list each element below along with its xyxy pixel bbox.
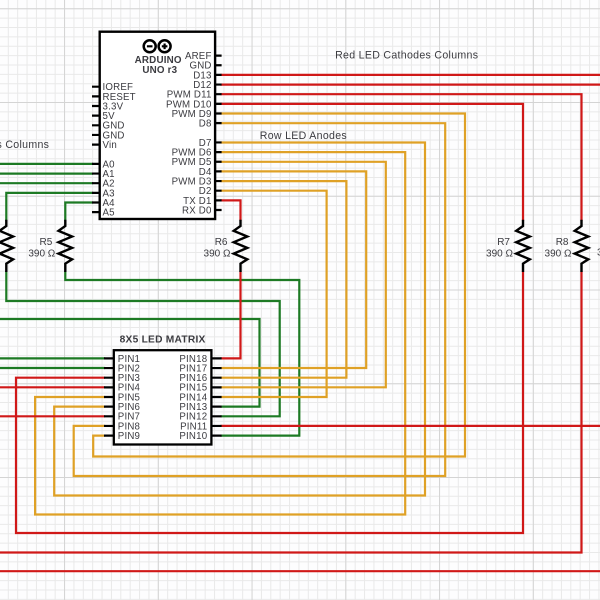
svg-text:PIN12: PIN12 [179,412,207,423]
svg-text:PIN18: PIN18 [179,354,207,365]
svg-text:RX D0: RX D0 [182,205,212,216]
svg-text:R6: R6 [215,237,228,248]
svg-text:PIN10: PIN10 [179,431,207,442]
svg-text:Row LED Anodes: Row LED Anodes [260,130,347,142]
svg-text:s Columns: s Columns [0,139,49,151]
svg-text:UNO r3: UNO r3 [142,65,177,76]
svg-text:390 Ω: 390 Ω [28,249,55,260]
svg-text:8X5 LED MATRIX: 8X5 LED MATRIX [120,335,206,346]
svg-text:PIN9: PIN9 [118,431,140,442]
svg-text:R5: R5 [40,237,53,248]
svg-text:390 Ω: 390 Ω [545,249,572,260]
svg-text:PIN11: PIN11 [180,421,207,432]
svg-text:D8: D8 [199,119,212,130]
svg-text:Red LED Cathodes Columns: Red LED Cathodes Columns [335,50,478,62]
svg-text:390 Ω: 390 Ω [486,249,513,260]
svg-text:PIN16: PIN16 [179,373,207,384]
svg-text:Vin: Vin [103,140,117,151]
svg-text:R8: R8 [556,237,569,248]
svg-text:PIN15: PIN15 [179,383,207,394]
svg-text:PIN14: PIN14 [179,392,207,403]
svg-text:A5: A5 [103,208,115,219]
svg-text:390 Ω: 390 Ω [204,249,231,260]
svg-text:PIN13: PIN13 [179,402,207,413]
svg-text:R7: R7 [497,237,510,248]
svg-text:PIN17: PIN17 [179,363,207,374]
